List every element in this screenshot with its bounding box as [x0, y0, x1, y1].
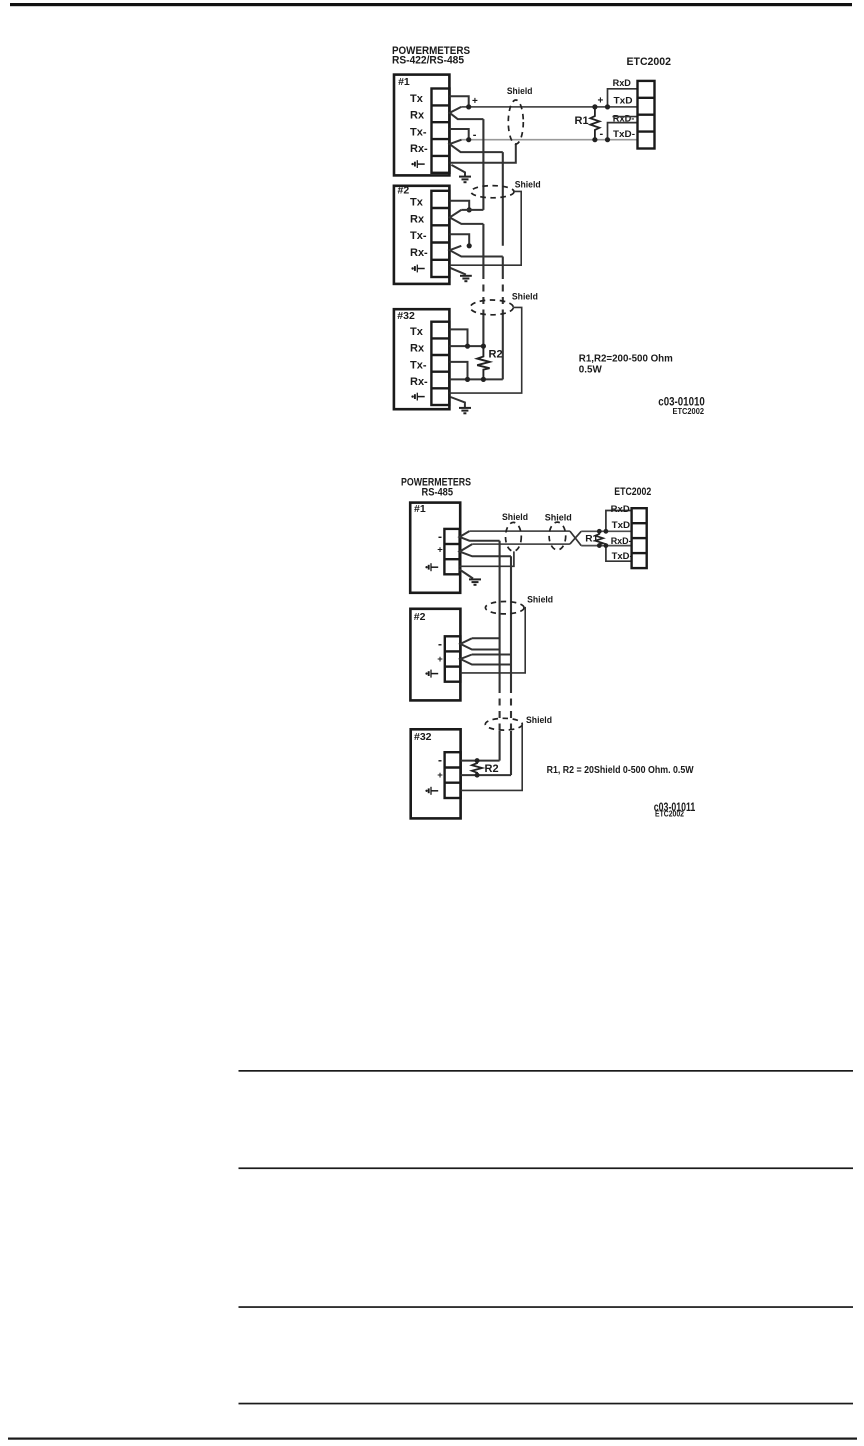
- svg-text:R2: R2: [485, 763, 499, 775]
- svg-text:Shield: Shield: [526, 715, 552, 726]
- wire + wedge (#1 d2): [460, 544, 511, 556]
- svg-text:Shield: Shield: [515, 179, 541, 190]
- junction Tx- #2: [467, 243, 472, 248]
- wire Tx elbow #2: [449, 201, 469, 210]
- svg-text:#1: #1: [414, 503, 426, 515]
- svg-text:RxD-: RxD-: [613, 113, 635, 123]
- wire daisy bus A d2 dashed gap: [499, 686, 501, 731]
- ground symbol #32: [459, 408, 471, 413]
- pin symbol shield terminal #2 d2: [425, 670, 438, 678]
- svg-text:Rx: Rx: [410, 343, 425, 355]
- shield ellipse cable d2-3: [485, 602, 524, 614]
- resistor R1 (diagram 2): [595, 531, 603, 545]
- wire cable top line d2: [469, 530, 570, 532]
- junction Tx-/Rx- #32: [465, 377, 470, 382]
- table rule 3: [239, 1306, 854, 1308]
- wire RxD branch: [608, 89, 638, 107]
- wire daisy bus A into #32: [482, 316, 484, 346]
- svg-text:R1, R2 = 20Shield 0-500 Ohm. 0: R1, R2 = 20Shield 0-500 Ohm. 0.5W: [547, 764, 694, 776]
- meter box #1 (diagram 2): [410, 503, 460, 593]
- wire ground drop #1: [451, 165, 465, 176]
- wire daisy bus B d2 into #32: [510, 731, 512, 775]
- wire TxD line after crossover: [581, 530, 631, 532]
- wire Tx- elbow #2: [449, 234, 469, 246]
- junction R1 bottom: [592, 137, 597, 142]
- wire Rx wedge: [450, 107, 484, 119]
- svg-text:Tx: Tx: [410, 93, 424, 105]
- meter box #32: [394, 309, 450, 409]
- svg-text:+: +: [437, 654, 443, 665]
- wire ground drop #32: [451, 397, 465, 407]
- resistor R2 (diagram 2): [472, 761, 482, 776]
- junction R2 top d2: [475, 758, 480, 763]
- svg-text:Rx-: Rx-: [410, 376, 428, 388]
- svg-text:Tx-: Tx-: [410, 230, 427, 242]
- junction TxD- d2: [604, 543, 609, 548]
- label RxD- (struck): [613, 113, 638, 123]
- pin symbol shield terminal #32: [411, 393, 424, 401]
- ground symbol #1: [459, 177, 471, 183]
- wire ground drop #1 d2: [460, 570, 473, 579]
- svg-text:-: -: [438, 753, 442, 767]
- wire + wedge (#2 d2): [460, 655, 511, 665]
- pin symbol shield terminal #1: [411, 160, 424, 168]
- shield ellipse cable d2-4: [485, 718, 522, 730]
- svg-text:#32: #32: [414, 731, 432, 743]
- svg-text:-: -: [600, 128, 604, 140]
- svg-text:Shield: Shield: [527, 595, 553, 606]
- wire Rx upper tap #2: [461, 209, 483, 211]
- wire daisy bus A (#1 Rx down to #2): [482, 119, 484, 210]
- svg-text:+: +: [472, 96, 478, 107]
- wire shield of #2 to cable shield 2: [449, 191, 521, 265]
- wire daisy bus A (#2 down): [482, 224, 484, 272]
- wire shield of #1 d2: [460, 551, 514, 566]
- wire - upper tap (#2 d2): [472, 637, 500, 639]
- junction R1 top: [592, 104, 597, 109]
- wire Tx elbow: [450, 96, 469, 107]
- svg-text:Shield: Shield: [507, 86, 533, 97]
- wire shield of #1 to cable shield: [450, 144, 516, 162]
- svg-text:Rx-: Rx-: [410, 143, 428, 155]
- svg-text:+: +: [598, 96, 604, 107]
- ground symbol #1 d2: [469, 579, 481, 584]
- wire daisy bus B (#1 Rx- down to #2): [502, 152, 504, 246]
- pin symbol shield terminal #32 d2: [425, 787, 438, 795]
- wire daisy bus B dashed gap: [502, 272, 504, 316]
- shield ellipse cable d2-2: [549, 522, 566, 550]
- terminal strip #32 d2 (3 terminals): [445, 752, 461, 798]
- svg-text:#2: #2: [398, 185, 410, 197]
- terminal strip #2 (5 terminals): [431, 191, 449, 277]
- wire Tx- elbow #32: [449, 362, 467, 380]
- shield ellipse cable 2: [471, 186, 514, 198]
- resistor R2: [477, 346, 489, 379]
- ETC2002 terminal strip (diagram 2): [632, 508, 647, 568]
- terminal strip #2 d2 (3 terminals): [445, 636, 461, 681]
- wire Rx- line #32: [449, 378, 502, 380]
- top rule: [10, 3, 852, 6]
- svg-text:Shield: Shield: [502, 512, 528, 523]
- svg-text:ETC2002: ETC2002: [673, 406, 705, 416]
- junction R2 top: [481, 344, 486, 349]
- wire cable bottom line d2: [472, 543, 570, 545]
- meter box #2 (diagram 2): [410, 609, 460, 701]
- junction Tx-/-: [466, 137, 471, 142]
- junction R2 bottom d2: [475, 773, 480, 778]
- wire daisy bus B (#2 down): [502, 257, 504, 273]
- svg-text:RxD-: RxD-: [611, 536, 632, 546]
- svg-text:TxD: TxD: [612, 520, 631, 530]
- svg-text:-: -: [438, 529, 442, 543]
- svg-text:ETC2002: ETC2002: [627, 56, 672, 68]
- wire daisy bus B into #32: [502, 316, 504, 379]
- title POWERMETERS RS-422/RS-485: [392, 45, 470, 67]
- svg-text:+: +: [437, 770, 443, 781]
- ETC2002 terminal strip (diagram 1): [638, 81, 655, 149]
- junction Tx/+: [466, 104, 471, 109]
- svg-text:Tx-: Tx-: [410, 126, 427, 138]
- svg-text:R2: R2: [489, 348, 503, 360]
- wire - wedge (#2 d2): [460, 638, 499, 649]
- svg-text:TxD-: TxD-: [612, 551, 633, 561]
- wire shield of #32 to cable shield 3: [449, 307, 521, 393]
- svg-text:TxD: TxD: [614, 95, 634, 105]
- wire - line (meter #1 to ETC): [462, 139, 638, 141]
- terminal strip #1 d2 (3 terminals): [444, 529, 459, 574]
- terminal strip #1 (5 terminals): [432, 89, 450, 173]
- svg-text:Tx: Tx: [410, 197, 424, 209]
- svg-text:Rx: Rx: [410, 110, 425, 122]
- bottom rule: [8, 1438, 857, 1440]
- wire + upper tap (#2 d2): [472, 654, 511, 656]
- svg-text:ETC2002: ETC2002: [655, 809, 684, 818]
- wire shield of #32 d2: [461, 724, 523, 790]
- wire daisy bus A dashed gap: [482, 272, 484, 316]
- wire RxD branch d2: [606, 511, 632, 532]
- svg-text:Shield: Shield: [545, 513, 572, 524]
- shield ellipse cable 3: [470, 300, 513, 315]
- wire daisy bus B d2 dashed gap: [510, 686, 512, 731]
- svg-text:#1: #1: [398, 76, 410, 88]
- table rule 2: [239, 1167, 854, 1169]
- wire TxD- branch: [608, 123, 638, 140]
- wire Rx line #32: [449, 345, 483, 347]
- meter box #2: [394, 185, 450, 284]
- wire TxD- branch d2: [606, 546, 632, 562]
- svg-text:RS-485: RS-485: [422, 486, 454, 498]
- resistor R1: [590, 107, 599, 140]
- junction RxD d2: [604, 529, 609, 534]
- svg-text:RxD: RxD: [613, 78, 632, 88]
- wire Rx wedge #2: [450, 210, 484, 224]
- drawing number c03-01011: [654, 800, 696, 819]
- svg-text:ETC2002: ETC2002: [614, 486, 651, 498]
- wire Rx- wedge: [450, 140, 503, 152]
- svg-text:TxD-: TxD-: [613, 129, 635, 139]
- wire - wedge (#1 d2): [460, 531, 500, 541]
- shield ellipse cable 1: [508, 100, 523, 144]
- wire Tx- elbow: [450, 129, 469, 140]
- svg-text:RS-422/RS-485: RS-422/RS-485: [392, 55, 464, 67]
- wire daisy bus A d2 into #32: [499, 731, 501, 761]
- junction Tx #2: [467, 207, 472, 212]
- svg-text:Shield: Shield: [512, 292, 538, 303]
- wire Rx- wedge #2: [450, 246, 503, 257]
- ground symbol #2: [460, 276, 472, 281]
- wire Tx elbow #32: [449, 329, 467, 346]
- svg-text:-: -: [438, 637, 442, 651]
- svg-text:+: +: [437, 545, 443, 556]
- svg-text:RxD: RxD: [611, 504, 631, 514]
- pin symbol shield terminal #1 d2: [425, 563, 438, 571]
- wire shield of #2 d2: [460, 608, 525, 673]
- terminal strip #32 (5 terminals): [431, 322, 449, 405]
- pin symbol shield terminal #2: [411, 265, 424, 273]
- svg-text:Rx: Rx: [410, 213, 425, 225]
- wire daisy bus B d2: [510, 556, 512, 686]
- junction R1 bottom d2: [597, 543, 602, 548]
- junction TxD-/-: [605, 137, 610, 142]
- title POWERMETERS RS-485: [401, 477, 471, 499]
- meter box #1: [394, 75, 449, 176]
- drawing number c03-01010: [658, 397, 705, 416]
- table rule 4: [239, 1403, 854, 1405]
- wire ground drop #2: [450, 268, 466, 275]
- junction Tx/Rx #32: [465, 344, 470, 349]
- svg-text:R1: R1: [585, 534, 599, 545]
- svg-text:Rx-: Rx-: [410, 247, 428, 259]
- svg-text:#32: #32: [397, 310, 415, 322]
- wire crossover X: [570, 531, 581, 546]
- svg-text:-: -: [473, 129, 477, 141]
- note R1,R2 value (diagram 1): [579, 353, 673, 376]
- table rule 1: [239, 1070, 854, 1072]
- meter box #32 (diagram 2): [411, 729, 461, 818]
- wire - line (#32 d2): [461, 760, 500, 762]
- svg-text:0.5W: 0.5W: [579, 364, 602, 376]
- shield ellipse cable d2-1: [506, 522, 522, 551]
- wire + line (meter #1 to ETC): [461, 106, 637, 108]
- wire + line (#32 d2): [461, 774, 511, 776]
- junction R1 top d2: [597, 529, 602, 534]
- svg-text:Tx: Tx: [410, 326, 424, 338]
- junction R2 bottom: [481, 377, 486, 382]
- svg-text:R1: R1: [575, 115, 589, 127]
- wire daisy bus A d2: [499, 541, 501, 686]
- svg-text:Tx-: Tx-: [410, 359, 427, 371]
- junction RxD/+: [605, 104, 610, 109]
- svg-text:#2: #2: [414, 611, 426, 623]
- wire RxD- line after crossover: [581, 545, 631, 547]
